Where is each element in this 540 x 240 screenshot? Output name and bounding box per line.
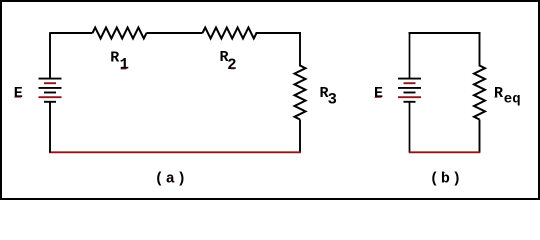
label E (a) — [14, 85, 23, 102]
wire: left vertical lower (b) — [409, 102, 411, 153]
svg-text:3: 3 — [328, 91, 337, 109]
svg-text:1: 1 — [120, 56, 129, 74]
label E (b) — [374, 85, 383, 102]
resistor R3 — [295, 66, 306, 120]
resistor Req — [474, 66, 485, 120]
label Req — [494, 85, 521, 108]
wire: right vertical lower (b) — [479, 120, 481, 153]
wire: right vertical upper (a) — [299, 33, 301, 66]
wire: bottom horizontal (b) — [409, 151, 480, 153]
wire: left vertical upper (b) — [409, 32, 411, 78]
svg-text:R: R — [494, 85, 503, 102]
battery E (b) — [398, 79, 421, 102]
resistor R2 — [203, 28, 257, 39]
svg-text:(a): (a) — [155, 171, 189, 188]
label R3 — [320, 85, 337, 109]
svg-text:E: E — [14, 85, 23, 102]
wire: right vertical lower (a) — [299, 120, 301, 153]
wire: top-left horizontal (a) — [50, 32, 93, 34]
label R2 — [220, 49, 237, 74]
svg-text:eq: eq — [504, 92, 521, 108]
label (b) — [430, 171, 464, 188]
wire: left vertical upper (a) — [49, 32, 51, 78]
wire: top middle between R1 and R2 (a) — [147, 32, 203, 34]
wire: top-right horizontal (a) — [257, 32, 301, 34]
resistor R1 — [93, 28, 147, 39]
svg-text:2: 2 — [227, 56, 236, 74]
wire: top horizontal (b) — [410, 32, 480, 34]
wire: left vertical lower (a) — [49, 102, 51, 153]
wire: right vertical upper (b) — [479, 33, 481, 66]
svg-text:R: R — [110, 50, 119, 67]
label (a) — [155, 171, 189, 188]
battery E (a) — [39, 79, 62, 102]
wire: bottom horizontal (a) — [49, 151, 301, 153]
label R1 — [110, 50, 129, 74]
svg-text:(b): (b) — [430, 171, 464, 188]
svg-text:E: E — [374, 85, 383, 102]
